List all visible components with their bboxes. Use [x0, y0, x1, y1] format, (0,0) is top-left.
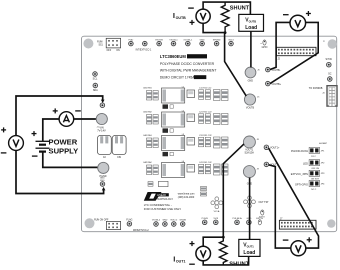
- wire load A to GND turret: [249, 178, 251, 240]
- test cluster U2: [211, 197, 223, 213]
- mounting hole top-left: [83, 39, 93, 49]
- svg-text:SS1: SS1: [98, 44, 103, 46]
- svg-text:Load: Load: [245, 25, 257, 31]
- turret VIN: [96, 113, 107, 132]
- svg-text:ON: ON: [116, 50, 120, 52]
- wire shunt B bottom: [203, 23, 225, 32]
- svg-text:S2A/15A: S2A/15A: [244, 152, 254, 155]
- test cluster OUT TST: [244, 196, 270, 208]
- svg-text:C11 R11 C12: C11 R11 C12: [199, 88, 212, 90]
- wire VOUT1- sense: [269, 165, 291, 248]
- turret SC: [328, 72, 333, 81]
- svg-text:WP/EXTVCC-2: WP/EXTVCC-2: [133, 230, 149, 232]
- svg-text:NC C: NC C: [311, 189, 317, 191]
- turret VOUTB: [244, 94, 260, 110]
- svg-text:OFF: OFF: [107, 50, 112, 52]
- turret 5V13: [229, 41, 234, 46]
- power supply battery: [32, 131, 79, 156]
- turret VINSNS-: [100, 178, 105, 187]
- shunt resistor B: [221, 2, 229, 32]
- svg-text:www.linear.com: www.linear.com: [178, 193, 195, 196]
- jumper EXTVCC_3PIN: [291, 170, 325, 180]
- mounting hole bottom-right: [327, 219, 335, 227]
- svg-text:SYNC: SYNC: [325, 58, 332, 61]
- turret SDA: [93, 83, 98, 92]
- turret PULSE A: [235, 220, 240, 225]
- mounting hole bottom-left: [85, 218, 95, 228]
- svg-text:CA1 RA1: CA1 RA1: [143, 134, 153, 137]
- svg-text:GNDB: GNDB: [180, 219, 187, 221]
- turret VOUT1+ sense: [264, 145, 280, 150]
- turret VOUT1: [243, 136, 259, 155]
- svg-text:OUT TST: OUT TST: [259, 201, 270, 204]
- wire VOUT1+ sense: [269, 148, 319, 248]
- header J3 top: [277, 47, 317, 60]
- svg-text:SCL: SCL: [93, 78, 98, 81]
- wire shunt A top: [203, 237, 223, 246]
- turret SCL: [93, 72, 98, 81]
- test point EXTV mid: [259, 210, 265, 219]
- wire junction A to VOUT1 turret: [223, 144, 244, 237]
- svg-text:Load: Load: [243, 250, 255, 256]
- turret GNDB: [180, 222, 185, 227]
- fet small Q2B: [163, 128, 169, 132]
- svg-text:FOR CUSTOMER USE ONLY: FOR CUSTOMER USE ONLY: [144, 207, 181, 211]
- wire junction B to VOUTB turret: [225, 33, 247, 96]
- turret 1VO35-1: [186, 41, 191, 46]
- turret VIO33-1: [171, 41, 176, 46]
- svg-text:SC: SC: [328, 72, 332, 75]
- power stage 4 caps left: [143, 161, 158, 174]
- label IOUTB: [173, 11, 186, 20]
- svg-text:TECHNOLOGY: TECHNOLOGY: [157, 199, 174, 201]
- svg-text:CB1 RB1: CB1 RB1: [143, 88, 153, 90]
- inductor L4: [162, 161, 185, 178]
- wire ammeter to VIN: [74, 118, 97, 120]
- jumper LED: [303, 160, 325, 170]
- wire arrow up: [102, 187, 106, 191]
- svg-text:7V-14V: 7V-14V: [97, 128, 106, 132]
- turret PGD: [129, 41, 134, 46]
- inductor L1: [162, 86, 185, 103]
- header TO DC590B: [309, 86, 337, 107]
- power stage 3 caps left: [143, 134, 158, 147]
- svg-text:SDA: SDA: [93, 89, 98, 92]
- svg-text:C41 R41 C42: C41 R41 C42: [199, 162, 212, 164]
- output caps stage 2: [199, 112, 229, 125]
- resistors bottom mid: [201, 187, 207, 197]
- output caps stage 3: [199, 135, 229, 148]
- svg-text:GND: GND: [162, 219, 167, 221]
- top turret row: [129, 40, 235, 42]
- wire load B to GND turret: [250, 31, 252, 67]
- svg-text:5VIO-2: 5VIO-2: [170, 219, 178, 221]
- turret GND B: [245, 67, 260, 82]
- svg-text:VOUT1+: VOUT1+: [270, 147, 280, 150]
- voltmeter VOUT1: [283, 237, 312, 256]
- svg-text:OPTI-GPIO: OPTI-GPIO: [295, 183, 308, 186]
- turret FLAG: [126, 218, 132, 226]
- voltmeter VOUTB: [283, 11, 311, 31]
- turret VIO33-2: [154, 222, 159, 227]
- ammeter A: [53, 108, 81, 126]
- svg-text:VOUTB+: VOUTB+: [271, 83, 281, 86]
- svg-text:VIO33-2: VIO33-2: [152, 219, 161, 221]
- load box VOUT1: [239, 239, 260, 256]
- turret SPGND: [214, 41, 219, 46]
- svg-text:OFF ON: OFF ON: [311, 168, 319, 170]
- turret GND b1: [163, 222, 168, 227]
- bulk cap CIN1: [97, 135, 111, 158]
- GPIO test point: [261, 40, 268, 49]
- mosfet Q4: [187, 165, 195, 173]
- inductor L3: [162, 134, 185, 151]
- mosfet Q3: [187, 138, 195, 146]
- svg-text:WITH DIGITAL PWR MANAGEMENT: WITH DIGITAL PWR MANAGEMENT: [160, 69, 217, 73]
- wire left V top: [16, 96, 103, 136]
- turret PGVB: [202, 220, 207, 225]
- svg-text:SNS: SNS: [100, 180, 105, 182]
- turret RUN: [143, 41, 148, 46]
- turret VINSNS+: [100, 103, 105, 108]
- turret SYNC: [325, 58, 332, 67]
- svg-text:C31 R31 C32: C31 R31 C32: [199, 135, 212, 137]
- junction A: [222, 236, 225, 239]
- power stage 2 caps left: [143, 112, 158, 124]
- board outline: [82, 36, 337, 232]
- wire battery plus to ammeter: [43, 119, 59, 141]
- bottom turret row right: [202, 217, 264, 220]
- wire VOUTB- sense: [270, 22, 290, 69]
- LTC logo: [144, 192, 195, 211]
- switch RUN/SS: [97, 38, 120, 52]
- turret EXTVB: [157, 41, 162, 46]
- svg-text:R1 C: R1 C: [311, 156, 316, 158]
- jumper OPTI-GPIO: [295, 181, 325, 191]
- svg-text:FLAG: FLAG: [126, 218, 132, 221]
- title block: [160, 54, 217, 79]
- wire battery minus to PGND: [43, 152, 99, 167]
- svg-text:(408) 432-1900: (408) 432-1900: [178, 196, 195, 199]
- svg-text:OUT1: OUT1: [176, 260, 186, 264]
- turret GND A: [243, 166, 259, 186]
- svg-text:TO DC590B: TO DC590B: [309, 87, 323, 90]
- svg-text:POLYPHASE DC/DC CONVERTER: POLYPHASE DC/DC CONVERTER: [160, 62, 215, 66]
- shunt resistor A: [219, 237, 227, 265]
- svg-text:GPIO: GPIO: [262, 47, 268, 49]
- svg-text:PGND: PGND: [100, 175, 107, 178]
- mosfet Q1: [187, 90, 195, 98]
- svg-text:SUPPLY: SUPPLY: [49, 147, 79, 156]
- wire arrow down: [101, 100, 105, 104]
- turret 5VIO-2: [172, 222, 177, 227]
- jumper PGOOD-RUN1: [291, 147, 325, 157]
- turret 5VI3: [214, 220, 219, 225]
- svg-text:CA2 RA2: CA2 RA2: [143, 161, 153, 164]
- fet small Q3B: [163, 152, 169, 156]
- turret VOUT1- sense: [264, 162, 279, 167]
- svg-text:LTC3860EUM: LTC3860EUM: [160, 54, 186, 59]
- small part below row4: [148, 181, 168, 186]
- voltmeter IOUT1: [189, 241, 210, 264]
- fet small Q1B: [163, 104, 169, 108]
- turret VOUTB+ sense: [266, 81, 282, 86]
- svg-text:CB2 RB2: CB2 RB2: [143, 112, 153, 114]
- svg-text:OUT1: OUT1: [247, 245, 255, 249]
- wire VOUTB+ sense: [270, 22, 318, 83]
- svg-text:LINEAR: LINEAR: [157, 194, 166, 197]
- svg-text:C21 R21 C22: C21 R21 C22: [199, 112, 212, 114]
- svg-text:PULSE A: PULSE A: [232, 217, 242, 220]
- turret GND a2: [247, 220, 252, 225]
- load box VOUTB: [239, 14, 264, 31]
- svg-text:LED: LED: [303, 162, 308, 165]
- test point EXT5V: [258, 220, 261, 225]
- wire shunt B top loop: [203, 2, 250, 14]
- junction B: [224, 31, 227, 34]
- turret VOUTB- sense: [266, 67, 281, 72]
- svg-text:PGOOD-RUN1: PGOOD-RUN1: [291, 150, 309, 153]
- mosfet Q2: [187, 114, 195, 122]
- mounting hole top-right: [328, 39, 337, 48]
- svg-text:GND: GND: [248, 79, 254, 82]
- svg-text:SHUNT: SHUNT: [230, 5, 250, 11]
- svg-text:POWER: POWER: [49, 138, 78, 147]
- svg-text:OUTB: OUTB: [249, 20, 257, 24]
- svg-text:CIN: CIN: [117, 157, 121, 159]
- turret PGND: [98, 162, 109, 178]
- voltmeter V left: [1, 127, 24, 152]
- svg-text:DEMO CIRCUIT 1745A-: DEMO CIRCUIT 1745A-: [160, 75, 196, 79]
- svg-text:EXTV: EXTV: [259, 217, 265, 219]
- bulk cap CIN2: [112, 135, 126, 158]
- svg-text:RUN/: RUN/: [97, 42, 103, 44]
- svg-text:VIO A: VIO A: [214, 210, 220, 213]
- inductor L2: [162, 110, 185, 127]
- wire left V bottom: [16, 150, 104, 193]
- power stage 1 caps left: [143, 88, 158, 100]
- header J7 bottom: [279, 218, 316, 229]
- label IOUT1: [173, 254, 185, 263]
- svg-text:VOUTB: VOUTB: [246, 107, 255, 110]
- turret GND top: [200, 41, 205, 46]
- voltmeter IOUTB: [188, 8, 210, 25]
- svg-text:OUTB: OUTB: [176, 16, 187, 20]
- svg-text:EXTVCC_3PIN: EXTVCC_3PIN: [291, 173, 308, 176]
- svg-text:A KEEP: A KEEP: [319, 142, 327, 145]
- output caps stage 1: [199, 88, 229, 101]
- switch RUN bottom: [94, 219, 121, 229]
- via dot: [323, 40, 325, 42]
- output caps stage 4: [199, 162, 229, 175]
- wire shunt A bottom to load: [203, 256, 248, 265]
- bottom turret row left: [152, 219, 186, 221]
- svg-text:INT/EXTVCC-1: INT/EXTVCC-1: [136, 50, 152, 52]
